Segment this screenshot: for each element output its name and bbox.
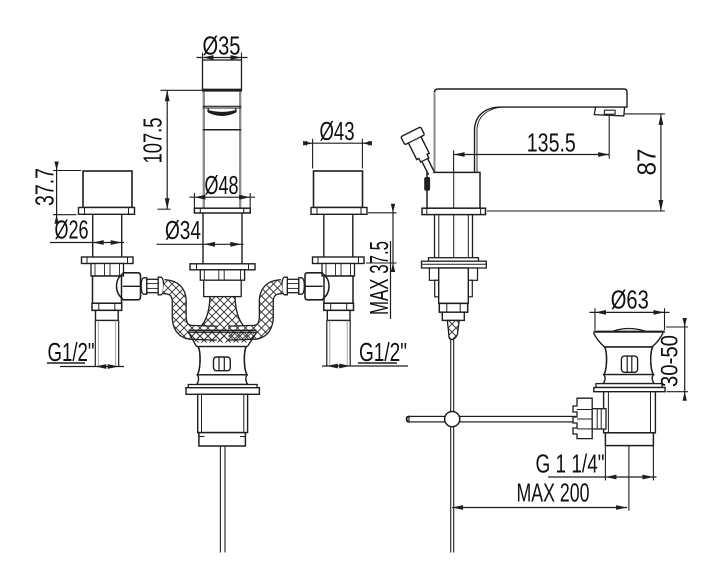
side faucet shank (434, 215, 436, 258)
dimension Ø43 line (306, 142, 370, 144)
manifold funnel (189, 329, 257, 331)
drain lower body (604, 392, 656, 433)
side faucet braided stub (447, 320, 459, 339)
lift rod ball joint (445, 412, 460, 427)
spout column outlet heavy line (202, 89, 242, 92)
spout column threaded collar (200, 270, 244, 280)
drain plug (594, 331, 665, 333)
dimension G 1 1/4 line (548, 476, 657, 478)
svg-text:107.5: 107.5 (138, 118, 168, 164)
spout column mid line (203, 129, 241, 131)
drain knurled nut (573, 398, 592, 438)
drain nut stub (592, 409, 606, 429)
svg-text:Ø43: Ø43 (320, 116, 355, 146)
left supply hose (164, 287, 218, 334)
dimension MAX 37.5 line (392, 208, 394, 269)
dimension G1/2 left underline (47, 362, 85, 364)
dimension 87 line (660, 114, 662, 211)
side faucet shank washer (429, 258, 479, 262)
dimension Ø48 line (190, 196, 256, 198)
dimension 30-50 line (684, 323, 686, 397)
side faucet deck flange (422, 208, 486, 214)
spout column lower body (204, 280, 242, 296)
svg-text:135.5: 135.5 (527, 128, 576, 158)
svg-text:Ø26: Ø26 (55, 215, 89, 245)
spout column escutcheon (190, 264, 255, 270)
dimension 37.7 line (56, 165, 58, 220)
dimension Ø26 line (50, 242, 124, 244)
svg-text:G 1 1/4": G 1 1/4" (536, 449, 605, 479)
svg-text:Ø35: Ø35 (203, 31, 241, 61)
dimension 135.5 line (454, 154, 610, 156)
extension line through body (453, 172, 455, 257)
horizontal lift rod (409, 416, 576, 422)
dimension Ø63 line (590, 311, 670, 313)
side faucet aerator (594, 107, 624, 116)
svg-text:87: 87 (632, 149, 662, 176)
dimension G1/2 right underline (358, 362, 397, 364)
side faucet body (427, 172, 480, 208)
spout column right gray edge (239, 92, 241, 209)
dimension Ø35 line (197, 57, 248, 59)
spout column top box (203, 60, 242, 89)
side faucet bracket left (429, 268, 438, 280)
dimension Ø34 line (157, 243, 244, 245)
drain lower flare (603, 375, 654, 384)
svg-text:Ø63: Ø63 (611, 285, 649, 315)
manifold slot (214, 357, 231, 371)
dimension G1/2 left line (60, 366, 124, 368)
left handle assembly (79, 171, 164, 366)
center braided riser (196, 297, 249, 342)
drain slot (621, 356, 637, 372)
svg-text:MAX 37.5: MAX 37.5 (364, 241, 394, 315)
spout outlet double line (203, 105, 241, 107)
spout column left gray edge (203, 92, 205, 209)
right supply hose (229, 287, 283, 334)
svg-text:30-50: 30-50 (657, 335, 684, 387)
side faucet spout inner curve (477, 107, 502, 172)
side faucet spout left gray edge (434, 92, 436, 171)
spout column body below flange (202, 213, 204, 264)
drain upper body (604, 347, 654, 375)
pop-up rod center (219, 446, 221, 553)
side faucet shank body (439, 268, 469, 303)
side faucet set screw (425, 178, 430, 191)
side faucet spout outline (435, 89, 628, 172)
spout column deck flange (194, 208, 250, 213)
drain flange (596, 384, 662, 388)
manifold lower flare (197, 375, 248, 385)
extension line 107.5 top (161, 89, 203, 91)
manifold funnel cone braid (191, 332, 255, 342)
spout aerator lip (207, 108, 210, 111)
manifold valve body waist lines (197, 347, 200, 375)
side faucet nut cylinder (442, 312, 464, 320)
manifold lower body (198, 394, 248, 432)
svg-text:MAX 200: MAX 200 (517, 478, 590, 508)
drain tailpiece (605, 433, 653, 446)
dimension 107.5 line (166, 90, 168, 209)
svg-text:37.7: 37.7 (30, 168, 60, 206)
right handle assembly (282, 171, 367, 366)
pop-up rod side view (450, 340, 452, 553)
dimension MAX 200 line (452, 507, 627, 509)
manifold flange (188, 385, 257, 388)
side faucet bracket right (468, 268, 477, 280)
manifold bottom cup (199, 433, 246, 446)
side faucet lever (401, 127, 442, 179)
svg-text:Ø34: Ø34 (165, 215, 201, 245)
dimension MAX 37.5 underline (390, 241, 392, 319)
side faucet mounting bar (422, 261, 487, 268)
side faucet hex nut (439, 303, 467, 312)
dimension G1/2 right line (322, 365, 408, 367)
svg-text:Ø48: Ø48 (205, 170, 239, 200)
manifold valve body (197, 347, 247, 375)
